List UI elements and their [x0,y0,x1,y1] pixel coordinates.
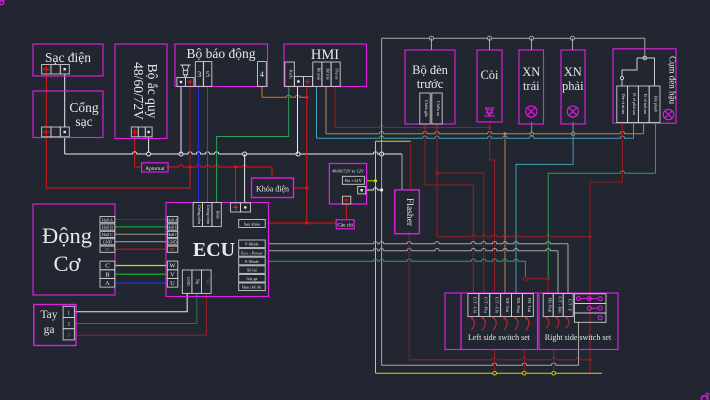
box Bo ac quy (battery) [115,44,167,139]
svg-text:Cầu chì: Cầu chì [337,224,353,229]
turn-right bus y138.2 (cyan) [317,136,634,138]
svg-text:HMI: HMI [311,47,339,63]
wire red feed y188 [46,187,190,189]
wire battery + down to Aptomat [134,137,136,168]
svg-text:XN: XN [522,65,540,79]
wire throttle 5V (dark red) [74,293,206,335]
svg-text:C/T - Đèn: C/T - Đèn [557,297,562,315]
motor pin cells [100,217,115,223]
svg-text:XN. Phải: XN. Phải [516,297,521,313]
svg-text:Chiếu xa: Chiếu xa [436,101,441,116]
wire alarm 4 to ignition net (orange) [262,95,307,97]
wire Cong sac - down to neutral bus [64,137,66,155]
node neutral-HMI junction [296,152,300,156]
wire HMI turn-right down (cyan) [316,86,318,138]
left switch levers [471,318,475,330]
ECU right mode cells [239,240,266,248]
box Aptomat (breaker) [142,163,169,172]
svg-text:Hall C: Hall C [167,232,178,237]
right switch cells [543,294,553,317]
svg-text:Pha xe: Pha xe [335,68,340,79]
svg-text:C: C [105,263,109,270]
svg-text:trước: trước [417,77,444,91]
svg-text:Chiếu gần: Chiếu gần [424,100,429,118]
wire Sac dien - to Cong sac - [64,74,66,128]
svg-text:Chống trộm: Chống trộm [197,205,202,225]
wire brake lamp down (green) [655,123,657,174]
wire lamp bus into tail cluster [644,38,646,58]
svg-text:Rẽ phải: Rẽ phải [316,68,321,82]
svg-text:phải: phải [562,79,584,93]
svg-text:Aptomat: Aptomat [145,166,165,172]
wire switch to yellow tap1 [494,350,496,372]
node yellow tap 1 [493,371,497,375]
maroon link to PD Phai switch [527,278,548,280]
wire throttle signal (teal) [74,293,196,323]
ucs icon fragment top-left [0,1,4,5]
box XN phai (right turn signal) [561,50,585,124]
svg-text:Hall C: Hall C [102,232,113,237]
wire cyan up into tail cluster cell2 [633,123,635,139]
svg-text:GND: GND [103,240,112,245]
svg-text:Bộ báo động: Bộ báo động [187,46,256,61]
green riser x548 down [547,173,549,277]
node yellow tap 2 [523,371,527,375]
svg-text:Right side switch set: Right side switch set [545,333,612,342]
grey riser up into switch grid [578,322,580,365]
wire tan bus down to XN Trai switch [504,134,506,294]
wire alarm 3 to ECU (blue) [198,86,200,202]
charger terminal strip [42,65,51,75]
svg-text:Khóa điện: Khóa điện [256,185,289,194]
wire Sac dien + to Cong sac + [45,74,47,128]
node neutral-alarm junction [179,152,183,156]
wire red bus to ECU + [235,167,237,203]
wire neutral down to ECU - [244,154,246,203]
node XN trai on tan bus [530,132,534,136]
horn icon [484,108,495,116]
box Khoa dien (ignition switch) [252,178,294,198]
svg-text:Hạn chế tốc: Hạn chế tốc [242,285,262,290]
wire red riser x190 [189,167,191,188]
svg-text:Cụm đèn hậu: Cụm đèn hậu [668,56,678,104]
wire E-Mode down [524,261,526,277]
svg-text:5V: 5V [105,247,110,252]
ECU E-Mode line (green) [269,259,526,261]
node E-mode link [524,277,528,281]
alarm terminals [177,78,186,87]
phase C-W (yellow) [115,265,168,267]
svg-text:Sau khóa: Sau khóa [244,222,260,227]
svg-text:C/T - Còi: C/T - Còi [473,297,478,314]
left switch inner divider [460,293,462,350]
svg-text:XN: XN [564,65,582,79]
svg-text:Chống trộm: Chống trộm [206,205,211,225]
tail cluster cells [617,86,628,123]
svg-text:E-Mode: E-Mode [245,259,259,264]
svg-text:ECU: ECU [193,239,235,261]
node lamp bus - den truoc [430,36,434,40]
wire alarm 5 to ECU (dark green) [207,86,209,202]
svg-text:Bộ đèn: Bộ đèn [412,63,449,77]
wire XN phai lamp to XN Phai switch (cyan) [516,122,573,294]
contact row 3 [598,316,602,320]
right switch levers [546,318,549,329]
wire tan up into tail cluster cell3 [643,123,645,134]
node lamp bus - xn phai [571,36,575,40]
svg-text:W: W [169,263,176,270]
box Flasher [395,190,420,234]
svg-text:P-Mode: P-Mode [245,242,259,247]
wire HMI - down [297,86,299,154]
wire drop to XN trai [531,38,533,50]
svg-text:Đ. về phải sau: Đ. về phải sau [632,93,636,115]
yellow 12V top link [376,140,411,142]
headlight cells [420,93,430,124]
phase B-V (green) [115,273,168,275]
right switch contact grid [574,294,606,323]
maroon riser x590 to bottom [589,182,591,373]
wire XN trai lamp down to tan node [531,122,533,134]
svg-text:GND: GND [168,240,177,245]
box Dong Co (motor) [33,204,115,295]
wire HMI speed signal (green) [217,86,289,202]
wire drop to XN phai [572,38,574,50]
wire down into PD Phai switch cell [547,279,549,294]
svg-text:Tay: Tay [40,309,57,321]
tail cluster internal wiring [643,56,647,60]
box ECU [166,203,269,297]
converter gnd cell [358,187,366,194]
svg-text:Còi: Còi [480,68,499,82]
svg-text:Rẽ trái: Rẽ trái [326,68,331,80]
wire branch to C/T-Pha switch [437,173,484,294]
svg-text:Cổng: Cổng [69,100,99,115]
svg-text:5V: 5V [170,247,175,252]
svg-text:Sig: Sig [196,279,201,284]
svg-text:B: B [105,271,110,278]
right turn lamp symbol [567,106,578,117]
node lamp bus - xn trai [530,36,534,40]
svg-text:Kính: Kính [216,211,221,219]
left turn lamp symbol [526,106,537,117]
svg-text:3: 3 [197,70,201,79]
left switch cells [468,294,479,317]
maroon bottom bus y360 [409,358,590,360]
svg-text:trái: trái [523,79,540,93]
svg-text:ga: ga [44,324,55,336]
svg-text:A: A [105,280,110,287]
node XN phai on tan bus [571,132,575,136]
tail lamp symbol [663,109,673,119]
box Left side switch set [445,293,538,350]
green link y173.2 [548,171,655,173]
wire Hall A (blue) [115,219,168,221]
wire flasher out down [408,231,410,360]
box Bo den truoc (headlight) [405,50,455,124]
svg-text:Đèn vị trí sau: Đèn vị trí sau [621,94,625,115]
ECU left pin cells [167,217,178,223]
flasher bus y237 (maroon) [437,235,590,237]
wire Eco-Power down to C/T-Den switch [557,251,559,294]
converter Ra +12V cell [342,176,364,184]
yellow 12V riser x375.5 [375,141,377,373]
svg-text:PĐ. Phải: PĐ. Phải [547,298,552,314]
box Right side switch set [539,293,618,350]
wire HMI turn-left down (tan) [325,86,327,133]
svg-text:C/T - P: C/T - P [567,299,572,312]
wire switch to yellow tap2 [523,350,525,372]
wire ECU Sau khoa to fuse [269,222,337,224]
grey bottom bus y365 [382,363,579,365]
svg-text:Left side switch set: Left side switch set [468,333,531,342]
wire Hall B (green) [115,226,168,228]
alarm buzzer icon [180,65,190,70]
charge port terminal strip [42,127,51,137]
box Cong sac (charge port) [33,91,103,138]
wire throttle gnd (white) [74,293,187,311]
svg-text:PĐ. Trái: PĐ. Trái [527,298,532,313]
wire drop to Coi [489,38,491,50]
converter + cell [342,196,350,204]
wire alarm 4 down (orange) [261,86,263,97]
svg-text:5V: 5V [205,279,210,284]
ucs icon fragment bottom-right [701,396,707,400]
svg-text:V: V [170,271,175,278]
box Cau chi (fuse) [336,220,354,229]
svg-text:Sạc điện: Sạc điện [45,50,91,65]
svg-text:Bộ ắc quy48/60/72V: Bộ ắc quy48/60/72V [131,62,160,120]
node lamp bus - coi [488,36,492,40]
yellow bottom bus y373 [376,372,602,374]
wire HMI + down (ignition net) [306,86,308,223]
svg-text:C/T - Cốt: C/T - Cốt [494,297,499,314]
wire converter +12V out (yellow) [367,180,376,182]
turn-left bus y133.7 (tan) [326,131,644,133]
wire converter + down to fuse [345,204,347,220]
box XN trai (left turn signal) [519,50,544,124]
box Tay ga (throttle) [34,305,76,346]
box Cum den hau (tail lights) [613,49,676,123]
wire headlamp low beam to C/T-Coi switch [425,124,473,294]
svg-text:Ra +12V: Ra +12V [345,178,362,183]
wire HMI headlamp down (maroon) [334,86,336,127]
box Sac dien (charger) [33,44,103,76]
battery terminal strip [131,127,138,137]
wire 12V to flasher (maroon) [410,141,412,190]
wire Coi horn down to C/T-Cot switch [490,122,495,294]
throttle pin cells [63,306,74,317]
wire headlamp high beam down to flasher bus [436,124,438,237]
wire neutral down to flasher [401,154,403,190]
wire Hall 5V (red) [115,248,168,250]
svg-text:XN. Trái: XN. Trái [505,298,510,314]
box Coi (horn) [477,50,502,122]
wire converter gnd out [367,188,382,190]
node yellow tap 3 [552,371,556,375]
svg-text:Động: Động [42,223,92,248]
phase A-U (blue) [115,282,168,284]
node neutral-lamp bus junction [380,152,384,156]
wire alarm + down [189,86,191,167]
ECU - terminal [241,203,251,212]
wire drop to Bo den truoc [431,38,433,50]
svg-text:Eco – Power: Eco – Power [241,250,263,255]
wire P-Mode down to C/T-P switch [567,244,569,294]
svg-text:GND: GND [186,277,191,286]
contact row 2 [587,306,591,310]
neutral bus y154 [65,152,402,154]
wire Khoa dien to ignition net [294,187,307,189]
box HMI [284,44,367,87]
svg-text:4: 4 [260,70,264,79]
ECU bottom cells (GND Sig 5V) [182,270,192,293]
svg-text:Hall A: Hall A [167,217,178,222]
svg-text:48/60/72V to 12V: 48/60/72V to 12V [332,169,365,174]
wire lamp bus riser x381.6 (neutral) [381,38,383,365]
ECU P-Mode line (grey) [269,242,569,244]
ECU Sau khoa cell [239,220,266,228]
svg-text:Đèn phanh: Đèn phanh [654,96,658,113]
wire tail position lamp down (maroon) [590,123,622,183]
svg-text:Hall B: Hall B [102,225,113,230]
wire battery - down to neutral bus [148,137,150,155]
svg-text:5: 5 [206,70,210,79]
svg-text:C/T - Pha: C/T - Pha [483,297,488,313]
node neutral-battery junction [147,152,151,156]
wire alarm speaker-gnd down [180,86,182,154]
svg-text:Hall A: Hall A [102,217,113,222]
node neutral-ECU junction [243,152,247,156]
ECU top cells [193,203,202,227]
svg-text:Đ. về trái sau: Đ. về trái sau [643,94,647,114]
wire red bus down into Khoa dien [271,167,273,178]
ECU + terminal [231,203,241,212]
wire switch to yellow tap3 [553,350,555,372]
svg-text:Gạt ga: Gạt ga [246,276,257,281]
box Bo bao dong (alarm) [175,44,268,87]
svg-text:Hall B: Hall B [167,225,178,230]
wire Cong sac + down [45,137,47,189]
wire Hall C [115,233,168,235]
contact row 1 [577,297,581,301]
svg-text:Flasher: Flasher [404,198,414,227]
svg-text:Số lùi: Số lùi [247,268,258,273]
svg-text:Cơ: Cơ [54,251,82,276]
box converter 48/60/72V to 12V [329,164,366,205]
red supply bus y167 [167,165,273,167]
headlamp bus y127.5 (maroon) [335,125,490,127]
wire Hall GND [115,241,168,243]
ECU Eco-Power line (grey) [269,248,559,250]
svg-text:sạc: sạc [75,114,92,129]
lamp supply bus y38 (grey) [382,37,645,39]
svg-text:U: U [170,280,175,287]
wire battery + into Aptomat [135,166,142,168]
svg-text:Kn/h: Kn/h [289,70,294,80]
HMI cells [285,62,295,86]
